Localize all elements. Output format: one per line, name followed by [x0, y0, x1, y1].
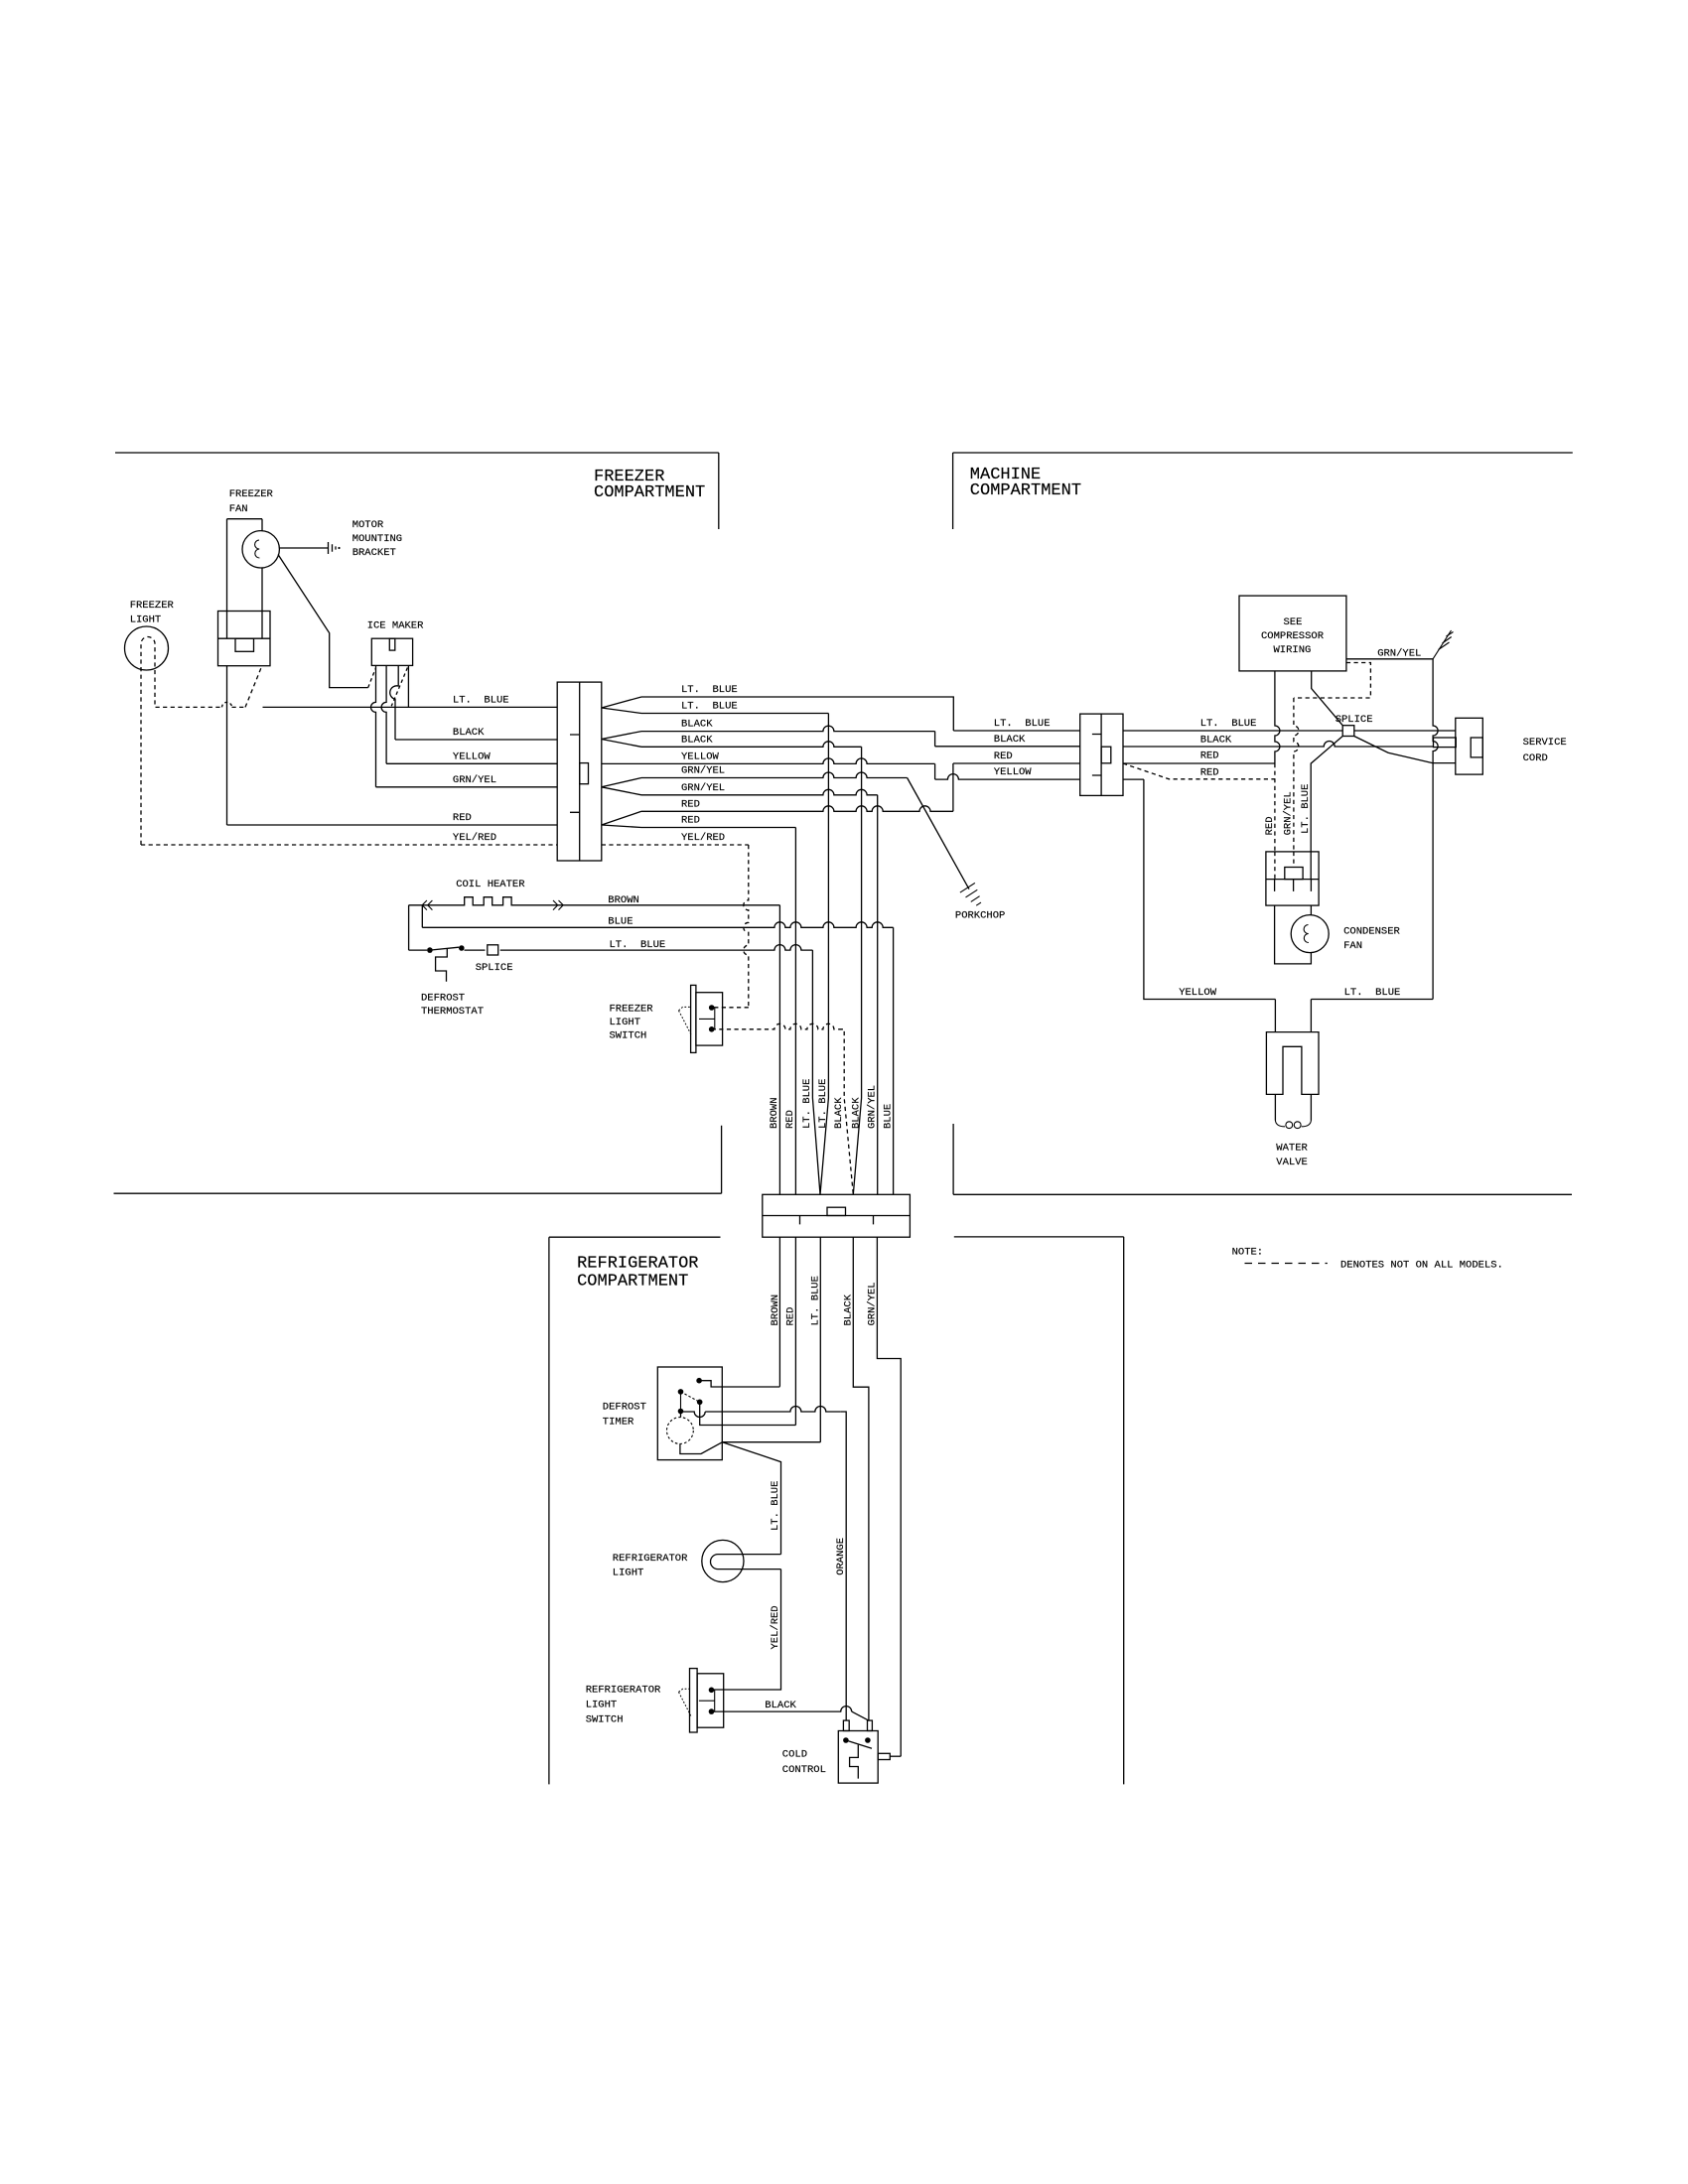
svg-text:THERMOSTAT: THERMOSTAT: [421, 1006, 484, 1018]
svg-text:GRN/YEL: GRN/YEL: [453, 774, 496, 786]
svg-text:FREEZER: FREEZER: [610, 1004, 654, 1016]
svg-text:LT. BLUE: LT. BLUE: [817, 1079, 829, 1129]
svg-text:BLACK: BLACK: [453, 727, 485, 739]
svg-text:BLUE: BLUE: [882, 1104, 894, 1129]
svg-text:BLACK: BLACK: [843, 1294, 855, 1325]
svg-text:DENOTES NOT ON ALL MODELS.: DENOTES NOT ON ALL MODELS.: [1340, 1260, 1503, 1272]
svg-text:COLD: COLD: [782, 1749, 807, 1761]
svg-text:FREEZER: FREEZER: [229, 488, 274, 500]
svg-text:NOTE:: NOTE:: [1232, 1247, 1264, 1259]
svg-text:WATER: WATER: [1276, 1143, 1308, 1155]
svg-text:LT. BLUE: LT. BLUE: [770, 1481, 781, 1531]
svg-text:LT. BLUE: LT. BLUE: [1200, 718, 1257, 730]
svg-text:YEL/RED: YEL/RED: [681, 832, 725, 844]
svg-text:BLACK: BLACK: [994, 734, 1026, 746]
svg-text:MOTOR: MOTOR: [352, 519, 384, 531]
svg-text:ORANGE: ORANGE: [835, 1538, 847, 1575]
svg-text:BLACK: BLACK: [833, 1097, 845, 1129]
svg-text:LT. BLUE: LT. BLUE: [994, 718, 1051, 730]
svg-text:SPLICE: SPLICE: [1336, 714, 1373, 726]
svg-text:ICE MAKER: ICE MAKER: [367, 620, 424, 632]
svg-text:BRACKET: BRACKET: [352, 547, 396, 559]
svg-text:RED: RED: [1264, 816, 1276, 835]
svg-text:LIGHT: LIGHT: [586, 1700, 618, 1711]
svg-text:BLACK: BLACK: [850, 1097, 862, 1129]
svg-text:LT. BLUE: LT. BLUE: [681, 684, 738, 696]
svg-text:SERVICE: SERVICE: [1523, 737, 1567, 749]
svg-text:LIGHT: LIGHT: [130, 614, 162, 626]
svg-text:LT. BLUE: LT. BLUE: [681, 701, 738, 713]
svg-text:RED: RED: [994, 751, 1013, 762]
svg-text:MOUNTING: MOUNTING: [352, 533, 402, 545]
svg-text:LT. BLUE: LT. BLUE: [1344, 987, 1401, 999]
svg-text:CONDENSER: CONDENSER: [1343, 926, 1400, 938]
svg-text:GRN/YEL: GRN/YEL: [681, 765, 725, 777]
svg-text:TIMER: TIMER: [603, 1417, 634, 1429]
svg-text:GRN/YEL: GRN/YEL: [867, 1085, 879, 1129]
svg-text:RED: RED: [785, 1307, 797, 1326]
svg-text:REFRIGERATOR: REFRIGERATOR: [577, 1255, 698, 1274]
svg-text:LT. BLUE: LT. BLUE: [453, 694, 509, 706]
svg-text:RED: RED: [784, 1110, 796, 1129]
svg-text:YELLOW: YELLOW: [453, 751, 492, 762]
svg-text:LT. BLUE: LT. BLUE: [610, 939, 666, 951]
svg-text:COMPARTMENT: COMPARTMENT: [577, 1273, 688, 1292]
svg-text:FAN: FAN: [1343, 940, 1362, 952]
svg-text:COMPARTMENT: COMPARTMENT: [594, 483, 705, 502]
svg-text:DEFROST: DEFROST: [603, 1402, 646, 1414]
svg-text:FAN: FAN: [229, 503, 248, 515]
svg-text:REFRIGERATOR: REFRIGERATOR: [613, 1553, 688, 1565]
svg-text:RED: RED: [681, 815, 700, 827]
svg-text:BROWN: BROWN: [608, 894, 639, 906]
svg-text:LT. BLUE: LT. BLUE: [801, 1079, 813, 1129]
svg-text:GRN/YEL: GRN/YEL: [1283, 791, 1295, 835]
svg-text:LT. BLUE: LT. BLUE: [809, 1276, 821, 1325]
svg-text:COMPARTMENT: COMPARTMENT: [970, 481, 1081, 500]
svg-text:REFRIGERATOR: REFRIGERATOR: [586, 1685, 661, 1697]
svg-text:BLACK: BLACK: [681, 734, 713, 746]
svg-text:SPLICE: SPLICE: [476, 962, 513, 974]
svg-text:COMPRESSOR: COMPRESSOR: [1261, 630, 1325, 642]
svg-text:SWITCH: SWITCH: [610, 1030, 647, 1042]
svg-text:CORD: CORD: [1523, 752, 1548, 764]
svg-text:LIGHT: LIGHT: [610, 1017, 641, 1028]
svg-text:GRN/YEL: GRN/YEL: [681, 782, 725, 794]
svg-text:FREEZER: FREEZER: [130, 600, 175, 612]
svg-text:RED: RED: [453, 812, 472, 824]
svg-text:BLACK: BLACK: [1200, 734, 1232, 746]
svg-text:LT. BLUE: LT. BLUE: [1300, 784, 1312, 834]
svg-text:YELLOW: YELLOW: [994, 766, 1033, 778]
svg-text:DEFROST: DEFROST: [421, 993, 465, 1005]
svg-text:YELLOW: YELLOW: [681, 751, 720, 762]
svg-text:YEL/RED: YEL/RED: [770, 1605, 781, 1649]
svg-text:WIRING: WIRING: [1274, 644, 1312, 656]
svg-text:LIGHT: LIGHT: [613, 1568, 644, 1579]
svg-text:SEE: SEE: [1284, 616, 1303, 628]
svg-text:BLUE: BLUE: [608, 916, 633, 928]
svg-text:GRN/YEL: GRN/YEL: [1377, 648, 1421, 660]
svg-text:COIL HEATER: COIL HEATER: [456, 879, 525, 890]
svg-text:BROWN: BROWN: [770, 1295, 781, 1326]
svg-text:SWITCH: SWITCH: [586, 1714, 624, 1726]
svg-text:BLACK: BLACK: [681, 719, 713, 731]
svg-text:GRN/YEL: GRN/YEL: [867, 1282, 879, 1325]
svg-text:VALVE: VALVE: [1276, 1157, 1308, 1168]
svg-text:YELLOW: YELLOW: [1179, 987, 1217, 999]
svg-text:CONTROL: CONTROL: [782, 1764, 826, 1776]
svg-text:RED: RED: [1200, 766, 1219, 778]
svg-text:BROWN: BROWN: [769, 1097, 780, 1129]
svg-text:YEL/RED: YEL/RED: [453, 832, 496, 844]
svg-text:BLACK: BLACK: [765, 1700, 796, 1711]
svg-text:RED: RED: [681, 798, 700, 810]
svg-text:RED: RED: [1200, 751, 1219, 762]
svg-text:PORKCHOP: PORKCHOP: [955, 910, 1005, 922]
